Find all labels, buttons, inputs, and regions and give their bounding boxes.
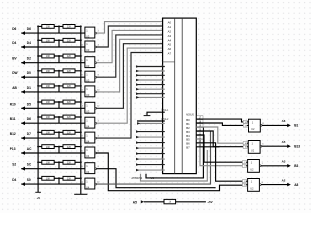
svg-text:10K: 10K (46, 162, 51, 165)
resistor R21 (42, 176, 54, 180)
wire rail row 6 (38, 101, 81, 103)
pin number box 3 (242, 164, 247, 167)
svg-text:U3: U3 (86, 64, 90, 68)
+5V bus wire (37, 26, 39, 192)
node mid row 4 (58, 70, 60, 72)
wire port row 10 (21, 168, 85, 170)
gate G4 input stub A (246, 180, 248, 182)
svg-text:A3: A3 (168, 34, 172, 38)
gate G2 input stub B (247, 146, 249, 148)
svg-text:D2: D2 (27, 57, 31, 61)
svg-text:+5V: +5V (207, 200, 212, 204)
inverter gate U4 row 11 (85, 178, 95, 189)
wire gate7 to A6 (97, 48, 165, 123)
wire B3 to G2 input B (196, 131, 244, 147)
stub arrow reset (137, 122, 140, 125)
inverter output bubble row 2 (95, 46, 97, 48)
node mid row 9 (58, 146, 60, 148)
svg-text:10K: 10K (46, 178, 51, 181)
wire mid tap row 10 (58, 162, 60, 168)
resistor R19 (42, 160, 54, 164)
wire mid tap row 9 (58, 147, 60, 153)
inverter gate U3 row 2 (85, 41, 95, 52)
arrowhead A2 (162, 29, 164, 31)
IC U1 inner line 1 (174, 18, 176, 174)
node mid row 7 (58, 116, 60, 118)
resistor R14 (63, 115, 75, 119)
stub arrow mid 0 (136, 65, 139, 68)
gate G2 output bubble (260, 145, 262, 147)
port arrow D4 (21, 182, 25, 186)
inverter gate U3 row 3 (85, 57, 95, 68)
svg-text:U3: U3 (86, 48, 90, 52)
wire stub reset (137, 122, 165, 124)
svg-text:D4: D4 (12, 41, 16, 45)
port arrow B1 (287, 124, 291, 128)
junction bus row 4 (37, 70, 39, 72)
inverter gate U3 row 4 (85, 71, 95, 82)
svg-text:A2: A2 (282, 178, 286, 182)
svg-text:A6: A6 (168, 47, 172, 51)
svg-text:A2: A2 (168, 29, 172, 33)
pin number box 19 (197, 124, 203, 127)
inverter gate U4 row 7 (85, 117, 95, 128)
svg-text:22K: 22K (67, 178, 72, 181)
wire rail row 2 (38, 39, 81, 41)
pin number box 9 (242, 180, 247, 183)
pin number box 18 (197, 120, 203, 123)
wire port row 1 (21, 32, 85, 34)
wire gate1 to A0 (97, 22, 165, 33)
pin number box 4 (243, 142, 248, 145)
IC stub wire lower 4 (136, 153, 165, 155)
svg-text:10K: 10K (46, 85, 51, 88)
junction gnd row 1 (80, 25, 82, 27)
svg-text:U4: U4 (86, 139, 90, 143)
junction gnd row 2 (80, 39, 82, 41)
+5V power symbol bar (35, 191, 41, 193)
svg-text:U3: U3 (86, 34, 90, 38)
svg-text:A5: A5 (282, 140, 286, 144)
IC U1 inner line 2 (181, 18, 183, 174)
stub arrow mid 5 (136, 88, 139, 91)
svg-text:B3: B3 (294, 164, 298, 168)
wire port row 5 (21, 91, 85, 93)
wire gate6 to A5 (97, 44, 165, 109)
port arrow B3 (287, 164, 291, 168)
junction bus row 8 (37, 131, 39, 133)
svg-text:XTAL1: XTAL1 (161, 109, 169, 112)
IC pin name column separator (163, 61, 175, 63)
gate G1 input stub B (247, 125, 249, 127)
inverter output bubble row 4 (95, 76, 97, 78)
svg-text:U1: U1 (151, 176, 155, 180)
wire B2 to G2 input A (196, 127, 244, 143)
wire mid tap row 1 (58, 26, 60, 33)
wire xtal gnd (147, 112, 165, 115)
junction bus row 9 (37, 146, 39, 148)
port arrow AB (21, 90, 25, 94)
svg-text:A4: A4 (168, 38, 172, 42)
svg-text:D1: D1 (27, 86, 31, 90)
wire B5 to G3 input B (196, 139, 243, 166)
node mid row 11 (58, 177, 60, 179)
IC stub wire lower 2 (136, 142, 165, 144)
wire mid tap row 8 (58, 132, 60, 138)
port arrow R10 (21, 106, 25, 110)
svg-text:A5: A5 (133, 201, 137, 205)
svg-text:A7: A7 (168, 52, 172, 56)
port arrow P13 (21, 151, 25, 155)
svg-text:10K: 10K (46, 101, 51, 104)
svg-text:D6: D6 (27, 27, 31, 31)
pin number box 17 (197, 116, 203, 119)
junction gnd row 6 (80, 101, 82, 103)
svg-text:10K: 10K (46, 26, 51, 29)
svg-text:B12: B12 (10, 132, 16, 136)
svg-text:10K: 10K (46, 70, 51, 73)
svg-text:U4: U4 (86, 124, 90, 128)
gate U2 G1 body (249, 119, 261, 132)
inverter output bubble row 9 (95, 152, 97, 154)
junction gnd row 5 (80, 85, 82, 87)
junction gnd row 4 (80, 70, 82, 72)
gate G3 output bubble (259, 165, 261, 167)
wire R23 to +5V (176, 201, 206, 203)
stub arrow lower 2 (136, 141, 139, 144)
svg-text:B7: B7 (186, 146, 190, 150)
svg-text:AT89C52: AT89C52 (131, 176, 142, 180)
IC stub wire lower 6 (136, 164, 165, 166)
gate U2 G2 body (248, 141, 260, 154)
svg-text:22K: 22K (67, 85, 72, 88)
junction bus row 10 (37, 161, 39, 163)
IC stub wire lower 1 (136, 136, 165, 138)
pin number box 20 (197, 128, 203, 131)
wire port row 2 (21, 46, 85, 48)
wire rail row 7 (38, 116, 81, 118)
wire rail row 3 (38, 55, 81, 57)
resistor R3 (42, 38, 54, 42)
junction bus row 6 (37, 101, 39, 103)
junction gnd row 11 (80, 177, 82, 179)
svg-text:B13: B13 (294, 145, 300, 149)
svg-text:10K: 10K (46, 132, 51, 135)
port arrow D6 (21, 31, 25, 35)
GND bus wire (80, 26, 82, 194)
arrowhead A1 (162, 25, 164, 27)
wire A5 to R23 (144, 201, 164, 203)
port arrow B11 (21, 121, 25, 125)
svg-text:D4: D4 (27, 41, 31, 45)
junction bus row 3 (37, 55, 39, 57)
wire bundle line 2 (141, 150, 208, 181)
stub arrow lower 4 (136, 152, 139, 155)
wire mid tap row 5 (58, 86, 60, 92)
stub arrow lower 3 (136, 147, 139, 150)
wire mid tap row 3 (58, 56, 60, 63)
svg-text:DW: DW (12, 71, 17, 75)
resistor R10 (63, 84, 75, 88)
resistor R17 (42, 145, 54, 149)
IC stub wire lower 7 (136, 169, 165, 171)
svg-text:B1: B1 (294, 124, 298, 128)
IC stub wire lower 0 (136, 131, 165, 133)
gate G2 input stub A (247, 142, 249, 144)
svg-text:P13: P13 (10, 147, 16, 151)
arrowhead A4 (162, 38, 164, 40)
pin number box 2 (242, 161, 247, 164)
inverter output bubble row 5 (95, 91, 97, 93)
gate G4 output bubble (259, 184, 261, 186)
wire B4 to G3 input A (196, 135, 243, 162)
wire rail row 4 (38, 70, 81, 72)
resistor R13 (42, 115, 54, 119)
inverter output bubble row 1 (95, 32, 97, 34)
wire gate5 to A4 (97, 39, 165, 92)
wire mid tap row 7 (58, 117, 60, 123)
IC stub wire P2 mid (136, 74, 165, 76)
node mid row 5 (58, 85, 60, 87)
IC stub wire P0 mid (136, 66, 165, 68)
svg-text:D4: D4 (12, 178, 16, 182)
port arrow DW (21, 75, 25, 79)
wire B7 stub (196, 146, 219, 148)
node mid row 2 (58, 39, 60, 41)
svg-text:A1: A1 (168, 25, 172, 29)
resistor R11 (42, 100, 54, 104)
wire G1 output (262, 124, 288, 126)
svg-text:A6: A6 (282, 119, 286, 123)
node mid row 1 (58, 25, 60, 27)
svg-text:U2: U2 (251, 127, 255, 131)
inverter output bubble row 7 (95, 122, 97, 124)
svg-text:U3: U3 (86, 93, 90, 97)
wire G2 output (262, 145, 288, 147)
ground symbol (74, 193, 87, 195)
wire G3 output (261, 165, 288, 167)
stub arrow lower 6 (136, 163, 139, 166)
pin number box 21 (197, 132, 203, 135)
junction bus row 1 (37, 25, 39, 27)
wire rail row 11 (38, 177, 81, 179)
svg-text:U2: U2 (250, 168, 254, 172)
IC U1 body (163, 18, 197, 174)
wire B0 to G1 input A (196, 119, 244, 122)
svg-text:A0: A0 (168, 21, 172, 25)
wire rail row 9 (38, 146, 81, 148)
arrowhead A3 (162, 34, 164, 36)
svg-text:ADBUS: ADBUS (186, 113, 194, 116)
svg-text:A5: A5 (168, 43, 172, 47)
wire bundle line 1 (146, 127, 203, 178)
ground bar xtal (144, 115, 151, 117)
wire stub xtal2 (137, 120, 165, 122)
svg-text:SC: SC (27, 163, 32, 167)
svg-text:S2: S2 (12, 163, 16, 167)
wire gate10 to bottom bundle (97, 169, 216, 188)
gate G1 input stub A (247, 121, 249, 123)
svg-text:10K: 10K (46, 55, 51, 58)
stub arrow mid 4 (136, 83, 139, 86)
resistor R16 (63, 130, 75, 134)
resistor R8 (63, 69, 75, 73)
svg-text:R10: R10 (10, 102, 16, 106)
inverter output bubble row 3 (95, 62, 97, 64)
IC stub wire P7 mid (136, 96, 165, 98)
svg-text:22K: 22K (67, 55, 72, 58)
IC stub wire P6 mid (136, 93, 165, 95)
inverter output bubble row 10 (95, 168, 97, 170)
wire B1 to G1 input B (196, 123, 244, 125)
junction gnd row 9 (80, 146, 82, 148)
port arrow A5 (141, 200, 144, 203)
gate U2 G4 body (248, 179, 260, 192)
port arrow BV (21, 61, 25, 65)
wire rail row 10 (38, 161, 81, 163)
node mid row 6 (58, 101, 60, 103)
inverter gate U3 row 1 (85, 27, 95, 38)
wire port row 11 (21, 183, 85, 185)
svg-text:22K: 22K (67, 40, 72, 43)
arrowhead A0 (162, 20, 164, 22)
svg-text:10K: 10K (46, 40, 51, 43)
wire port row 3 (21, 62, 85, 64)
resistor R23 (164, 199, 176, 203)
junction bus row 2 (37, 39, 39, 41)
svg-text:22K: 22K (67, 101, 72, 104)
junction bus row 7 (37, 116, 39, 118)
port arrow D4 (21, 45, 25, 49)
resistor R6 (63, 54, 75, 58)
svg-text:22K: 22K (67, 146, 72, 149)
inverter gate U4 row 9 (85, 147, 95, 158)
junction gnd row 3 (80, 55, 82, 57)
svg-text:U4: U4 (86, 154, 90, 158)
gate G1 output bubble (260, 125, 262, 127)
pin number box 5 (243, 145, 248, 148)
resistor R22 (63, 176, 75, 180)
wire gate11 bottom bundle (97, 131, 211, 184)
svg-text:S0: S0 (27, 178, 31, 182)
wire port row 9 (21, 152, 85, 154)
wire mid tap row 11 (58, 178, 60, 184)
svg-text:22K: 22K (67, 26, 72, 29)
inverter output bubble row 8 (95, 137, 97, 139)
port arrow B12 (21, 136, 25, 140)
wire rail row 5 (38, 85, 81, 87)
wire port row 4 (21, 76, 85, 78)
svg-text:U2: U2 (251, 149, 255, 153)
svg-text:U4: U4 (86, 170, 90, 174)
wire port row 8 (21, 137, 85, 139)
pin number box 12 (243, 120, 248, 123)
resistor R18 (63, 145, 75, 149)
svg-text:22K: 22K (67, 70, 72, 73)
wire gate4 to A3 (97, 35, 165, 77)
svg-text:U3: U3 (86, 78, 90, 82)
svg-text:U2: U2 (250, 187, 254, 191)
wire B6 to G4 input A (196, 143, 243, 181)
IC stub wire lower 5 (136, 158, 165, 160)
stub arrow mid 2 (136, 74, 139, 77)
wire mid tap row 4 (58, 71, 60, 77)
wire gate8 to A7 (97, 53, 165, 139)
wire port row 6 (21, 107, 85, 109)
wire port row 7 (21, 122, 85, 124)
svg-text:D5: D5 (27, 102, 31, 106)
port arrow S2 (21, 167, 25, 171)
svg-text:U4: U4 (86, 185, 90, 189)
svg-text:10K: 10K (46, 116, 51, 119)
IC stub wire lower 3 (136, 147, 165, 149)
resistor R1 (42, 25, 54, 29)
node mid row 3 (58, 55, 60, 57)
inverter gate U4 row 8 (85, 132, 95, 143)
resistor R15 (42, 130, 54, 134)
stub arrow lower 5 (136, 158, 139, 161)
inverter gate U3 row 5 (85, 86, 95, 97)
resistor R20 (63, 160, 75, 164)
pin number box 22 (197, 136, 203, 139)
pin number box 13 (243, 124, 248, 127)
stub arrow mid 6 (136, 92, 139, 95)
inverter output bubble row 11 (95, 183, 97, 185)
gate G3 input stub A (246, 161, 248, 163)
svg-text:U3: U3 (86, 110, 90, 114)
junction gnd row 7 (80, 116, 82, 118)
wire gate3 to A2 (97, 30, 165, 62)
node mid row 10 (58, 161, 60, 163)
resistor R4 (63, 38, 75, 42)
junction gnd row 10 (80, 161, 82, 163)
svg-text:D7: D7 (27, 132, 31, 136)
stub arrow lower 0 (136, 130, 139, 133)
port arrow A8 (287, 183, 291, 187)
IC stub wire P1 mid (136, 70, 165, 72)
resistor R2 (63, 25, 75, 29)
svg-text:22K: 22K (67, 116, 72, 119)
stub arrow mid 3 (136, 79, 139, 82)
gate U2 G3 body (248, 160, 260, 173)
gate G4 input stub B (246, 184, 248, 186)
svg-text:10K: 10K (46, 146, 51, 149)
arrowhead A6 (162, 47, 164, 49)
stub arrow mid 7 (136, 96, 139, 99)
junction bus row 11 (37, 177, 39, 179)
svg-text:22K: 22K (67, 132, 72, 135)
svg-text:D6: D6 (27, 117, 31, 121)
wire gate2 to A1 (97, 26, 165, 47)
inverter gate U3 row 6 (85, 102, 95, 113)
wire mid tap row 6 (58, 102, 60, 108)
resistor R9 (42, 84, 54, 88)
wire gate9 to U2 G4 input B (97, 153, 245, 191)
svg-text:D6: D6 (12, 27, 16, 31)
node mid row 8 (58, 131, 60, 133)
stub arrow mid 1 (136, 70, 139, 73)
arrowhead A5 (162, 43, 164, 45)
arrowhead A7 (162, 51, 164, 53)
inverter output bubble row 6 (95, 107, 97, 109)
resistor R5 (42, 54, 54, 58)
stub arrow lower 1 (136, 136, 139, 139)
IC stub wire P5 mid (136, 88, 165, 90)
svg-text:+5: +5 (36, 196, 40, 200)
svg-text:D0: D0 (27, 71, 31, 75)
IC stub wire P3 mid (136, 79, 165, 81)
stub arrow lower 7 (136, 169, 139, 172)
